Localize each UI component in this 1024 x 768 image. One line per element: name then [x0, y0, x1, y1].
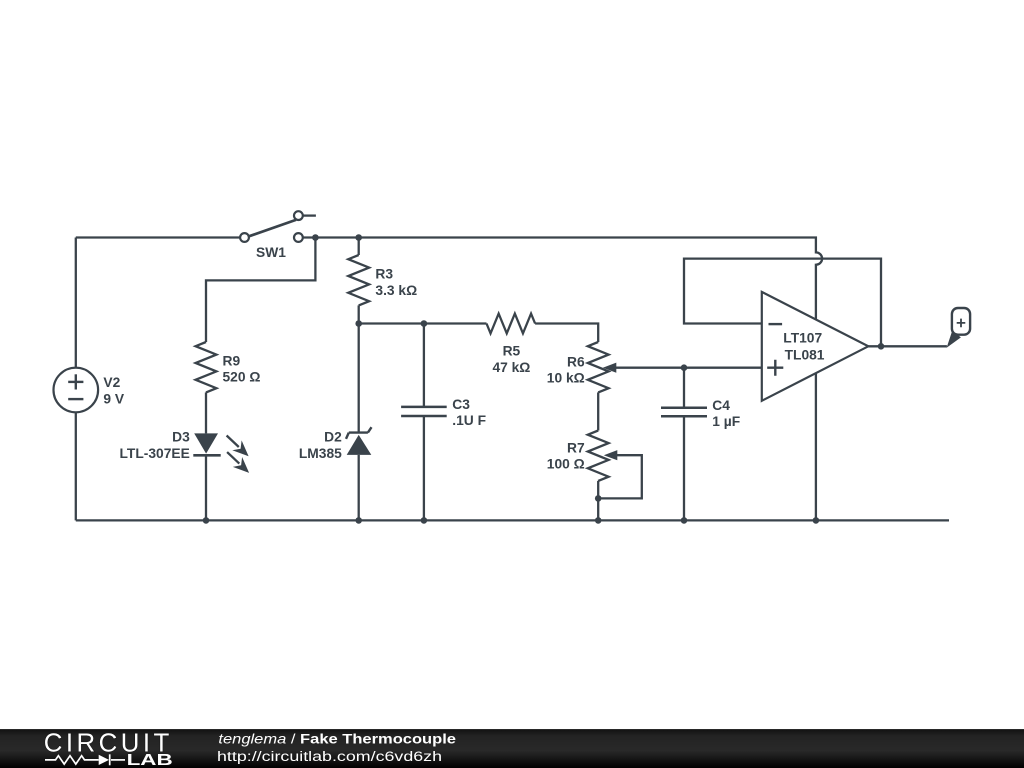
- svg-text:520 Ω: 520 Ω: [223, 370, 261, 385]
- svg-text:D3: D3: [172, 430, 190, 445]
- svg-text:R5: R5: [503, 344, 521, 359]
- svg-text:R7: R7: [567, 440, 585, 455]
- svg-text:TL081: TL081: [785, 348, 825, 363]
- svg-text:C4: C4: [712, 398, 730, 413]
- svg-text:LAB: LAB: [127, 752, 173, 768]
- svg-text:.1U F: .1U F: [452, 413, 486, 428]
- svg-text:R3: R3: [375, 266, 393, 281]
- svg-text:D2: D2: [324, 429, 342, 444]
- svg-text:LM385: LM385: [299, 446, 342, 461]
- svg-text:SW1: SW1: [256, 245, 286, 260]
- svg-text:10 kΩ: 10 kΩ: [547, 370, 585, 385]
- svg-text:C3: C3: [452, 397, 470, 412]
- svg-text:47 kΩ: 47 kΩ: [492, 360, 530, 375]
- svg-text:3.3 kΩ: 3.3 kΩ: [375, 283, 417, 298]
- svg-text:http://circuitlab.com/c6vd6zh: http://circuitlab.com/c6vd6zh: [217, 749, 442, 764]
- svg-text:R9: R9: [223, 353, 241, 368]
- svg-text:LT107: LT107: [783, 330, 822, 345]
- svg-text:LTL-307EE: LTL-307EE: [120, 446, 190, 461]
- svg-text:1 µF: 1 µF: [712, 414, 740, 429]
- svg-text:100 Ω: 100 Ω: [547, 457, 585, 472]
- svg-text:9 V: 9 V: [103, 391, 125, 406]
- svg-text:R6: R6: [567, 355, 585, 370]
- svg-text:tenglema / Fake Thermocouple: tenglema / Fake Thermocouple: [218, 732, 456, 747]
- svg-text:V2: V2: [103, 375, 120, 390]
